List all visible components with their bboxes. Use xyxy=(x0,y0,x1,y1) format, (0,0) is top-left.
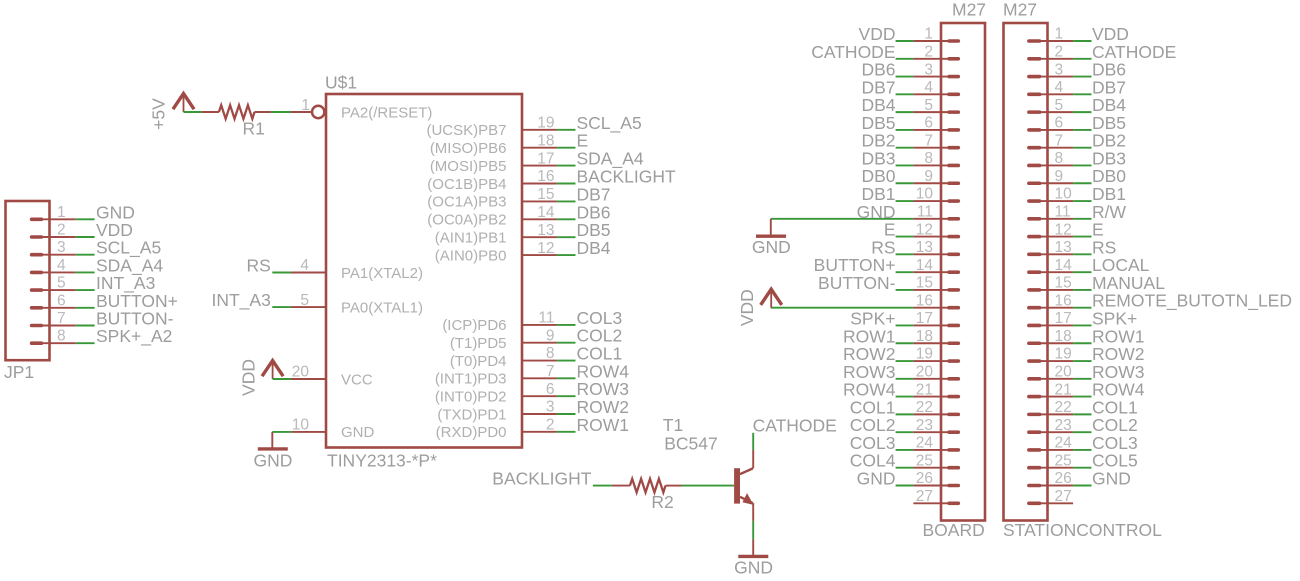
pin name VCC xyxy=(341,371,373,388)
transistor T1 xyxy=(733,468,753,504)
pin name PA1(XTAL2) xyxy=(341,265,423,282)
pin 16 wire xyxy=(522,183,557,185)
pin number 13 xyxy=(916,239,933,256)
wire net LOCAL xyxy=(1073,271,1091,273)
pin 19 wire xyxy=(522,129,557,131)
pin 6 bar M27 BOARD xyxy=(949,128,958,132)
supply +5V xyxy=(149,94,194,130)
pin 1 wire JP1 xyxy=(41,218,76,220)
pin number 16 xyxy=(916,292,933,309)
pin 16 wire M27 BOARD xyxy=(913,307,948,309)
pin number 8 xyxy=(57,328,66,345)
ground stub BOARD xyxy=(770,219,772,236)
supply VDD at U$1 VCC xyxy=(238,359,282,396)
node DB6 xyxy=(861,60,895,80)
pin number 2 xyxy=(546,417,555,434)
wire net DB6 xyxy=(557,218,576,220)
pin number 10 xyxy=(1055,186,1073,203)
ground label GND xyxy=(254,450,293,470)
pin 21 bar M27 BOARD xyxy=(949,395,958,399)
node DB7 xyxy=(577,184,611,204)
pin name (TXD)PD1 xyxy=(437,406,506,423)
pin number 14 xyxy=(916,257,934,274)
svg-text:22: 22 xyxy=(916,399,933,416)
svg-text:DB4: DB4 xyxy=(577,238,611,258)
collector wire T1 xyxy=(752,450,754,469)
wire net ROW4 xyxy=(557,377,576,379)
value label R2 xyxy=(651,492,673,512)
node INT_A3 xyxy=(96,273,155,294)
svg-text:27: 27 xyxy=(916,488,933,505)
svg-text:11: 11 xyxy=(538,310,554,327)
pin 7 bar M27 BOARD xyxy=(949,146,958,150)
value BC547 xyxy=(664,433,718,453)
node GND xyxy=(96,202,135,222)
node CATHODE at T1 xyxy=(753,415,837,435)
pin number 6 xyxy=(57,292,66,309)
pin 15 bar M27 STATIONCONTROL xyxy=(1029,288,1040,292)
pin 4 wire JP1 xyxy=(41,271,76,273)
node SDA_A4 xyxy=(96,255,163,276)
wire net DB1 xyxy=(896,200,914,202)
svg-text:6: 6 xyxy=(1055,115,1064,132)
node RS xyxy=(1092,237,1116,257)
svg-text:ROW1: ROW1 xyxy=(577,415,630,435)
wire net GND xyxy=(896,485,914,487)
svg-text:17: 17 xyxy=(916,310,933,327)
pin 1 bar M27 STATIONCONTROL xyxy=(1029,39,1040,43)
pin 17 bar M27 STATIONCONTROL xyxy=(1029,324,1040,328)
pin 9 wire xyxy=(522,342,557,344)
node LOCAL xyxy=(1092,255,1150,275)
pin 1 bar M27 BOARD xyxy=(949,39,958,43)
node COL2 xyxy=(577,326,623,346)
svg-text:23: 23 xyxy=(916,417,933,434)
ground label GND xyxy=(734,557,773,577)
svg-text:4: 4 xyxy=(1055,79,1064,96)
pin number 19 xyxy=(1055,346,1072,363)
svg-text:R2: R2 xyxy=(651,492,673,512)
wire net CATHODE xyxy=(896,58,914,60)
pin 3 wire M27 STATIONCONTROL xyxy=(1040,76,1073,78)
node INT_A3 xyxy=(211,290,270,311)
svg-text:GND: GND xyxy=(857,469,896,489)
svg-text:18: 18 xyxy=(1055,328,1072,345)
node SPK+ xyxy=(1092,308,1137,328)
pin 17 wire xyxy=(522,165,557,167)
pin number 2 xyxy=(924,43,933,60)
pin 11 bar M27 STATIONCONTROL xyxy=(1029,217,1040,221)
pin 8 bar JP1 xyxy=(32,341,42,345)
pin 23 wire M27 BOARD xyxy=(913,431,948,433)
pin 2 wire JP1 xyxy=(41,236,76,238)
pin number 27 xyxy=(1055,488,1072,505)
svg-text:20: 20 xyxy=(1055,364,1073,381)
pin 6 wire xyxy=(522,395,557,397)
pin 2 wire M27 STATIONCONTROL xyxy=(1040,58,1073,60)
node COL1 xyxy=(1092,397,1138,417)
wire net ROW1 xyxy=(896,342,914,344)
svg-text:1: 1 xyxy=(1055,26,1064,43)
svg-text:3: 3 xyxy=(924,61,933,78)
svg-text:22: 22 xyxy=(1055,399,1072,416)
svg-text:(MOSI)PB5: (MOSI)PB5 xyxy=(430,158,507,175)
pin number 25 xyxy=(916,452,933,469)
pin number 4 xyxy=(300,257,309,274)
svg-text:(INT1)PD3: (INT1)PD3 xyxy=(435,371,507,388)
pin 15 bar M27 BOARD xyxy=(949,288,958,292)
pin 7 bar JP1 xyxy=(32,324,42,328)
wire net DB5 xyxy=(1073,129,1091,131)
wire net ROW2 xyxy=(557,413,576,415)
pin name (INT0)PD2 xyxy=(435,388,507,405)
svg-text:U$1: U$1 xyxy=(325,73,357,93)
svg-text:27: 27 xyxy=(1055,488,1072,505)
svg-text:INT_A3: INT_A3 xyxy=(211,290,270,311)
svg-text:20: 20 xyxy=(916,364,934,381)
wire net COL3 xyxy=(1073,449,1091,451)
pin number 17 xyxy=(537,150,554,167)
pin 10 wire xyxy=(291,431,326,433)
node GND xyxy=(857,469,896,489)
pin number 21 xyxy=(1055,381,1072,398)
pin number 3 xyxy=(57,239,66,256)
svg-text:+5V: +5V xyxy=(149,98,169,130)
svg-text:14: 14 xyxy=(537,204,555,221)
pin name (ICP)PD6 xyxy=(442,317,506,334)
value TINY2313-*P* xyxy=(327,451,437,471)
pin 20 wire M27 STATIONCONTROL xyxy=(1040,378,1073,380)
pin number 5 xyxy=(1055,97,1064,114)
pin number 20 xyxy=(292,364,310,381)
svg-text:5: 5 xyxy=(57,275,66,292)
pin number 12 xyxy=(537,240,554,257)
emitter wire T1 xyxy=(752,503,754,521)
pin 16 bar M27 BOARD xyxy=(949,306,958,310)
node ROW1 xyxy=(577,415,630,435)
pin number 7 xyxy=(57,310,66,327)
svg-text:10: 10 xyxy=(292,417,310,434)
pin 24 bar M27 BOARD xyxy=(949,448,958,452)
pin 22 bar M27 STATIONCONTROL xyxy=(1029,413,1040,417)
svg-text:4: 4 xyxy=(57,257,66,274)
svg-text:GND: GND xyxy=(1092,469,1131,489)
svg-text:7: 7 xyxy=(57,310,66,327)
pin 1 PA2(/RESET) wire xyxy=(291,106,324,118)
pin number 25 xyxy=(1055,452,1072,469)
pin 10 bar M27 BOARD xyxy=(949,199,958,203)
pin number 17 xyxy=(916,310,933,327)
svg-text:5: 5 xyxy=(924,97,933,114)
pin 1 wire M27 STATIONCONTROL xyxy=(1040,40,1073,42)
wire net ROW2 xyxy=(896,360,914,362)
svg-text:M27: M27 xyxy=(952,0,986,20)
node BUTTON+ xyxy=(814,255,896,275)
ground symbol T1 xyxy=(738,555,768,558)
wire net SDA_A4 xyxy=(557,165,576,167)
svg-text:5: 5 xyxy=(300,292,309,309)
svg-text:13: 13 xyxy=(916,239,933,256)
pin number 12 xyxy=(1055,221,1072,238)
pin 4 bar JP1 xyxy=(32,271,42,275)
ground symbol BOARD xyxy=(756,234,786,237)
pin 22 wire M27 STATIONCONTROL xyxy=(1040,413,1073,415)
pin number 14 xyxy=(1055,257,1073,274)
value STATIONCONTROL xyxy=(1003,520,1162,540)
wire net GND xyxy=(76,218,95,220)
node ROW2 xyxy=(843,344,896,364)
pin 3 bar M27 STATIONCONTROL xyxy=(1029,75,1040,79)
pin 5 wire xyxy=(291,306,326,308)
wire net E xyxy=(896,236,914,238)
ground stub U$1 xyxy=(271,432,273,449)
pin 17 wire M27 STATIONCONTROL xyxy=(1040,324,1073,326)
pin 13 bar M27 BOARD xyxy=(949,253,958,257)
wire net SPK+_A2 xyxy=(76,342,95,344)
pin 11 wire M27 STATIONCONTROL xyxy=(1040,218,1073,220)
wire net COL3 xyxy=(557,324,576,326)
pin 20 wire xyxy=(291,378,326,380)
pin 19 wire M27 BOARD xyxy=(913,360,948,362)
node BACKLIGHT xyxy=(577,167,676,187)
svg-text:12: 12 xyxy=(1055,221,1072,238)
pin number 6 xyxy=(924,115,933,132)
pin number 5 xyxy=(300,292,309,309)
svg-text:15: 15 xyxy=(916,275,933,292)
pin number 1 xyxy=(57,204,66,221)
pin number 6 xyxy=(546,381,555,398)
svg-text:8: 8 xyxy=(1055,150,1064,167)
wire net COL1 xyxy=(557,360,576,362)
node ROW3 xyxy=(577,379,630,399)
pin 26 wire M27 BOARD xyxy=(913,485,948,487)
node ROW2 xyxy=(1092,344,1145,364)
node COL2 xyxy=(850,415,896,435)
wire net SCL_A5 xyxy=(76,254,95,256)
wire net SCL_A5 xyxy=(557,129,576,131)
wire net COL2 xyxy=(896,431,914,433)
svg-text:4: 4 xyxy=(300,257,309,274)
wire net DB1 xyxy=(1073,200,1091,202)
svg-text:T1: T1 xyxy=(663,415,683,435)
svg-text:24: 24 xyxy=(916,435,934,452)
wire net BACKLIGHT xyxy=(557,183,576,185)
svg-text:4: 4 xyxy=(924,79,933,96)
node COL3 xyxy=(577,308,623,328)
pin 13 wire xyxy=(522,236,557,238)
svg-text:9: 9 xyxy=(924,168,933,185)
pin 4 wire xyxy=(291,272,326,274)
wire net ROW3 xyxy=(896,378,914,380)
svg-text:15: 15 xyxy=(1055,275,1072,292)
svg-text:26: 26 xyxy=(916,470,933,487)
wire net REMOTE_BUTOTN_LED xyxy=(1073,307,1091,309)
wire net VDD xyxy=(76,236,95,238)
pin 20 wire M27 BOARD xyxy=(913,378,948,380)
pin number 19 xyxy=(537,115,554,132)
pin number 11 xyxy=(538,310,554,327)
pin 9 bar M27 STATIONCONTROL xyxy=(1029,181,1040,185)
svg-text:3: 3 xyxy=(1055,61,1064,78)
wire net E xyxy=(1073,236,1091,238)
node DB5 xyxy=(1092,113,1126,133)
pin 27 wire M27 BOARD xyxy=(913,502,948,504)
svg-text:8: 8 xyxy=(57,328,66,345)
wire net COL3 xyxy=(896,449,914,451)
svg-text:19: 19 xyxy=(537,115,554,132)
pin 3 bar M27 BOARD xyxy=(949,75,958,79)
pin number 2 xyxy=(57,222,66,239)
svg-text:14: 14 xyxy=(916,257,934,274)
refdes T1 xyxy=(663,415,683,435)
pin number 21 xyxy=(916,381,933,398)
pin 5 wire M27 STATIONCONTROL xyxy=(1040,111,1073,113)
svg-text:25: 25 xyxy=(916,452,933,469)
pin 2 wire xyxy=(522,431,557,433)
wire net SPK+ xyxy=(896,324,914,326)
ground label GND xyxy=(752,237,791,257)
pin name (AIN0)PB0 xyxy=(435,247,507,264)
node DB6 xyxy=(577,202,611,222)
pin name (T1)PD5 xyxy=(450,335,507,352)
pin 23 wire M27 STATIONCONTROL xyxy=(1040,431,1073,433)
svg-text:7: 7 xyxy=(546,363,555,380)
wire net DB3 xyxy=(896,164,914,166)
pin number 10 xyxy=(292,417,310,434)
pin 14 wire M27 BOARD xyxy=(913,271,948,273)
pin 7 wire M27 STATIONCONTROL xyxy=(1040,147,1073,149)
pin 19 bar M27 STATIONCONTROL xyxy=(1029,359,1040,363)
pin 7 wire xyxy=(522,377,557,379)
pin 18 bar M27 BOARD xyxy=(949,341,958,345)
svg-text:26: 26 xyxy=(1055,470,1072,487)
wire net +5V to R1 xyxy=(184,111,202,113)
node ROW1 xyxy=(1092,326,1145,346)
wire net DB5 xyxy=(557,236,576,238)
pin number 23 xyxy=(1055,417,1072,434)
wire net DB0 xyxy=(896,182,914,184)
node DB4 xyxy=(577,238,611,258)
wire net DB6 xyxy=(1073,76,1091,78)
pin 9 bar M27 BOARD xyxy=(949,181,958,185)
pin 23 bar M27 STATIONCONTROL xyxy=(1029,430,1040,434)
pin 10 bar M27 STATIONCONTROL xyxy=(1029,199,1040,203)
svg-text:6: 6 xyxy=(924,115,933,132)
pin 17 bar M27 BOARD xyxy=(949,324,958,328)
node DB7 xyxy=(861,77,895,97)
svg-text:BC547: BC547 xyxy=(664,433,718,453)
node DB3 xyxy=(1092,148,1126,168)
svg-text:(OC0A)PB2: (OC0A)PB2 xyxy=(427,212,506,229)
pin 9 wire M27 BOARD xyxy=(913,182,948,184)
svg-text:(OC1A)PB3: (OC1A)PB3 xyxy=(427,194,506,211)
pin 11 bar M27 BOARD xyxy=(949,217,958,221)
svg-text:16: 16 xyxy=(916,292,933,309)
pin number 8 xyxy=(1055,150,1064,167)
pin 10 wire M27 STATIONCONTROL xyxy=(1040,200,1073,202)
node ROW3 xyxy=(1092,362,1145,382)
node DB1 xyxy=(1092,184,1126,204)
svg-text:(RXD)PD0: (RXD)PD0 xyxy=(436,424,507,441)
pin 6 bar M27 STATIONCONTROL xyxy=(1029,128,1040,132)
pin number 3 xyxy=(546,399,555,416)
pin number 18 xyxy=(537,132,554,149)
pin 8 bar M27 BOARD xyxy=(949,164,958,168)
pin number 18 xyxy=(916,328,933,345)
wire net DB3 xyxy=(1073,164,1091,166)
pin 5 wire JP1 xyxy=(41,289,76,291)
pin number 11 xyxy=(917,204,933,221)
svg-text:PA1(XTAL2): PA1(XTAL2) xyxy=(341,265,423,282)
pin 27 bar M27 BOARD xyxy=(949,501,958,505)
node DB0 xyxy=(1092,166,1126,186)
pin 18 bar M27 STATIONCONTROL xyxy=(1029,341,1040,345)
node GND xyxy=(1092,469,1131,489)
wire net DB2 xyxy=(896,147,914,149)
svg-text:(INT0)PD2: (INT0)PD2 xyxy=(435,388,507,405)
ground stub T1 xyxy=(752,539,754,556)
pin 6 wire M27 STATIONCONTROL xyxy=(1040,129,1073,131)
pin name (MOSI)PB5 xyxy=(430,158,507,175)
pin number 1 xyxy=(924,26,933,43)
value BOARD xyxy=(923,520,985,540)
pin 27 bar M27 STATIONCONTROL xyxy=(1029,501,1040,505)
svg-text:3: 3 xyxy=(57,239,66,256)
pin number 9 xyxy=(546,327,555,344)
pin number 3 xyxy=(924,61,933,78)
pin 8 wire xyxy=(522,360,557,362)
pin number 22 xyxy=(916,399,933,416)
node SPK+_A2 xyxy=(96,326,172,347)
node COL4 xyxy=(850,451,896,471)
svg-text:25: 25 xyxy=(1055,452,1072,469)
svg-text:CATHODE: CATHODE xyxy=(753,415,837,435)
pin 15 wire M27 BOARD xyxy=(913,289,948,291)
pin 7 bar M27 STATIONCONTROL xyxy=(1029,146,1040,150)
connector JP1 body xyxy=(6,201,50,360)
pin number 7 xyxy=(1055,132,1064,149)
wire net CATHODE xyxy=(1073,58,1091,60)
resistor R2 xyxy=(612,479,682,493)
node SDA_A4 xyxy=(577,149,644,170)
wire net DB7 xyxy=(896,93,914,95)
wire net ROW4 xyxy=(896,396,914,398)
node BACKLIGHT xyxy=(492,469,591,489)
pin 18 wire M27 STATIONCONTROL xyxy=(1040,342,1073,344)
pin number 20 xyxy=(916,364,934,381)
pin 14 wire M27 STATIONCONTROL xyxy=(1040,271,1073,273)
pin 25 bar M27 STATIONCONTROL xyxy=(1029,466,1040,470)
svg-text:12: 12 xyxy=(916,221,933,238)
wire net DB4 xyxy=(896,111,914,113)
pin name (OC1A)PB3 xyxy=(427,194,506,211)
svg-text:BACKLIGHT: BACKLIGHT xyxy=(492,469,591,489)
pin number 20 xyxy=(1055,364,1073,381)
pin number 13 xyxy=(537,222,554,239)
svg-text:3: 3 xyxy=(546,399,555,416)
wire net COL4 xyxy=(896,467,914,469)
svg-text:(TXD)PD1: (TXD)PD1 xyxy=(437,406,506,423)
node DB2 xyxy=(861,131,895,151)
pin number 3 xyxy=(1055,61,1064,78)
pin 5 bar M27 STATIONCONTROL xyxy=(1029,110,1040,114)
pin 25 wire M27 BOARD xyxy=(913,467,948,469)
pin 3 wire JP1 xyxy=(41,254,76,256)
wire net SPK+ xyxy=(1073,324,1091,326)
pin 5 wire M27 BOARD xyxy=(913,111,948,113)
wire net DB7 xyxy=(557,200,576,202)
node VDD xyxy=(96,220,133,240)
